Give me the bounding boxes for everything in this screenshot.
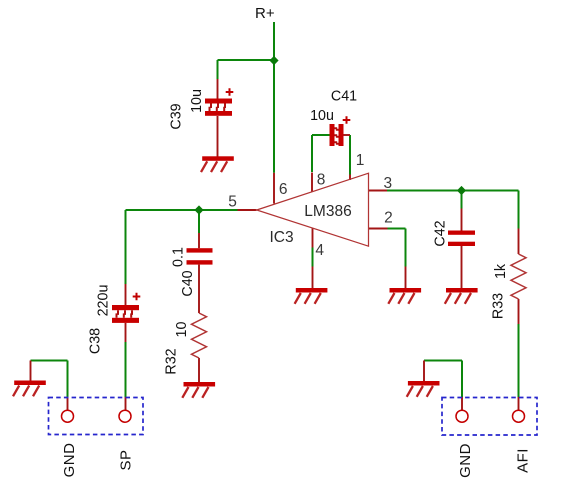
svg-text:2: 2 (384, 210, 393, 227)
svg-text:C38: C38 (88, 328, 104, 354)
svg-text:6: 6 (279, 181, 288, 198)
svg-text:8: 8 (317, 171, 326, 188)
svg-text:C40: C40 (180, 270, 196, 296)
svg-text:SP: SP (118, 449, 135, 470)
svg-text:C41: C41 (331, 89, 357, 105)
svg-text:GND: GND (457, 443, 474, 478)
svg-text:1k: 1k (493, 263, 509, 279)
svg-text:0.1: 0.1 (171, 247, 187, 267)
svg-text:C39: C39 (169, 103, 185, 129)
svg-text:10u: 10u (189, 89, 205, 113)
svg-text:1: 1 (356, 152, 365, 169)
svg-text:3: 3 (383, 175, 392, 192)
svg-text:GND: GND (61, 443, 78, 478)
svg-text:R32: R32 (164, 348, 180, 374)
svg-text:220u: 220u (96, 285, 112, 317)
svg-text:5: 5 (228, 193, 237, 210)
svg-text:10: 10 (174, 322, 190, 338)
svg-text:R33: R33 (491, 293, 507, 319)
svg-text:4: 4 (315, 242, 324, 259)
svg-text:IC3: IC3 (269, 229, 293, 246)
svg-text:R+: R+ (255, 5, 275, 22)
svg-text:LM386: LM386 (304, 203, 351, 220)
svg-text:C42: C42 (433, 220, 449, 246)
svg-text:AFI: AFI (515, 448, 532, 473)
svg-text:10u: 10u (310, 108, 334, 124)
